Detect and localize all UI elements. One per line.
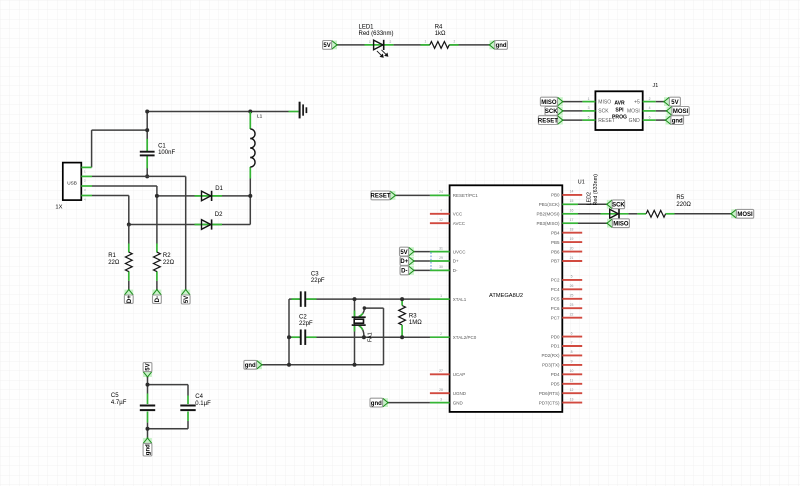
svg-text:RESET: RESET: [538, 118, 558, 124]
wire C4 bottom to node: [148, 421, 189, 429]
label C1: [158, 143, 175, 156]
svg-text:UCAP: UCAP: [453, 372, 466, 377]
IC pin PC4: [562, 288, 582, 290]
J1 pin label SCK: [598, 109, 609, 115]
svg-text:PC2: PC2: [551, 278, 560, 283]
pin lead C4 top: [187, 396, 189, 405]
svg-text:27: 27: [439, 369, 443, 373]
svg-text:PD7(CTS): PD7(CTS): [539, 400, 560, 405]
pin lead R3 top: [401, 299, 403, 305]
IC pin XTAL1: [430, 298, 450, 300]
svg-text:RESET/PC1: RESET/PC1: [453, 193, 479, 198]
IC pin label PB3(MISO): [536, 221, 560, 226]
svg-text:22Ω: 22Ω: [108, 260, 120, 266]
svg-text:UVCC: UVCC: [453, 249, 467, 254]
pin lead R5 left: [637, 213, 646, 215]
pin lead R3 bottom: [401, 325, 403, 337]
svg-text:28: 28: [439, 388, 443, 392]
svg-text:GND: GND: [629, 118, 641, 124]
pin lead L1 top: [249, 112, 251, 129]
flag D+ (USB): [124, 289, 133, 304]
svg-text:26: 26: [570, 284, 574, 288]
svg-text:R3: R3: [409, 313, 417, 319]
svg-text:25: 25: [570, 294, 574, 298]
pin lead C1 bottom: [146, 156, 148, 168]
svg-text:R5: R5: [676, 195, 684, 201]
IC pin PB6: [562, 251, 582, 253]
svg-text:9: 9: [571, 360, 573, 364]
wire D+ flag to IC: [414, 260, 430, 262]
svg-text:6: 6: [571, 331, 573, 335]
svg-text:C1: C1: [158, 143, 166, 149]
wire RESET flag to IC: [395, 194, 430, 196]
svg-text:2: 2: [454, 40, 456, 44]
IC pin PB1(SCK): [562, 203, 578, 205]
svg-text:gnd: gnd: [496, 43, 507, 49]
pin lead R2 top: [156, 244, 158, 253]
svg-text:1kΩ: 1kΩ: [435, 31, 446, 37]
svg-text:gnd: gnd: [146, 444, 152, 455]
wire right vertical to gnd row: [383, 308, 385, 365]
IC pin number 23: [570, 303, 574, 307]
flag gnd (J1): [665, 116, 684, 125]
svg-text:D+: D+: [127, 295, 133, 303]
svg-text:C4: C4: [195, 394, 203, 400]
wire node to gnd flag: [147, 429, 149, 438]
pin lead LED1: [365, 44, 394, 46]
label R4: [435, 24, 446, 37]
svg-text:2: 2: [440, 332, 442, 336]
J1 pin number 1: [588, 97, 590, 101]
svg-text:18: 18: [570, 228, 574, 232]
wire D2 row: [129, 224, 251, 226]
IC pin label PD3(TX): [542, 363, 560, 368]
wire J1 to 5V flag: [656, 101, 664, 103]
flag D- (USB): [153, 289, 162, 304]
node D2 left: [127, 223, 131, 227]
svg-text:31: 31: [439, 246, 443, 250]
IC pin label PD0: [551, 334, 560, 339]
IC pin XTAL2/PC0: [430, 336, 450, 338]
wire 5V to node: [147, 377, 149, 394]
J1 pin SCK: [582, 110, 595, 112]
svg-text:USB: USB: [67, 180, 77, 185]
svg-text:3: 3: [440, 397, 442, 401]
IC pin PC5: [562, 298, 582, 300]
svg-text:C2: C2: [299, 314, 307, 320]
resistor R3: [399, 306, 406, 326]
wire C5 bottom to node: [147, 423, 149, 429]
label C2: [299, 314, 313, 327]
svg-text:PC7: PC7: [551, 315, 560, 320]
flag RESET (J1): [538, 116, 564, 125]
svg-text:U1: U1: [578, 179, 585, 185]
svg-text:PB4: PB4: [551, 230, 560, 235]
wire J1 to MOSI flag: [656, 110, 667, 112]
IC pin label PD1: [551, 344, 560, 349]
svg-text:R2: R2: [163, 253, 171, 259]
svg-text:AVCC: AVCC: [453, 221, 466, 226]
wire SCK flag to J1: [563, 110, 583, 112]
flag gnd (LED1): [489, 41, 508, 50]
label D1: [215, 186, 223, 192]
USB pin numbers: [84, 170, 86, 202]
node crystal top bend: [363, 306, 367, 310]
IC pin label PB4: [551, 230, 560, 235]
svg-text:SPI: SPI: [615, 108, 624, 114]
svg-text:D1: D1: [215, 186, 223, 192]
svg-text:PD1: PD1: [551, 344, 560, 349]
J1 pin GND: [643, 119, 656, 121]
svg-text:19: 19: [570, 237, 574, 241]
IC pin number 31: [439, 246, 443, 250]
IC pin number 26: [570, 284, 574, 288]
pin lead C3 right: [306, 298, 316, 300]
IC pin label PC2: [551, 278, 560, 283]
IC pin label PD5: [551, 382, 560, 387]
wire RESET flag to J1: [563, 119, 583, 121]
IC pin PB4: [562, 232, 582, 234]
svg-text:14: 14: [570, 190, 574, 194]
IC pin number 27: [439, 369, 443, 373]
IC pin PB5: [562, 241, 582, 243]
IC pin label PC5: [551, 297, 560, 302]
pin lead crystal bottom curve: [359, 326, 364, 338]
wire PB2 to LED2: [578, 213, 601, 215]
label C5: [111, 393, 127, 406]
IC pin label PB6: [551, 249, 560, 254]
IC pin D-: [430, 269, 450, 271]
crystal FA1: [352, 317, 366, 325]
pin lead R5 right: [666, 213, 675, 215]
svg-text:4.7µF: 4.7µF: [111, 400, 127, 406]
J1 pin label MISO: [598, 99, 611, 105]
svg-text:1: 1: [369, 40, 371, 44]
svg-text:UGND: UGND: [453, 391, 467, 396]
label U1: [578, 179, 585, 185]
svg-text:PD4: PD4: [551, 372, 560, 377]
svg-text:2: 2: [390, 40, 392, 44]
svg-text:XTAL2/PC0: XTAL2/PC0: [453, 335, 477, 340]
pin lead R1 top: [128, 244, 130, 253]
wire crystal top curve: [359, 308, 365, 317]
flag gnd (C5): [143, 437, 152, 456]
LED LED1: [374, 40, 384, 50]
wire XTAL1 row: [289, 298, 430, 300]
wire USB pin1 up: [91, 130, 93, 167]
svg-text:PB1(SCK): PB1(SCK): [539, 202, 560, 207]
pin lead LED2: [601, 213, 629, 215]
svg-text:MOSI: MOSI: [627, 109, 640, 115]
svg-text:23: 23: [570, 303, 574, 307]
wire D+ row: [92, 195, 129, 197]
label R1: [108, 253, 120, 266]
J1 pin +5: [643, 101, 656, 103]
IC pin number 28: [439, 388, 443, 392]
label R3: [409, 313, 422, 326]
USB connector body: [63, 163, 82, 201]
wire VBUS row: [92, 175, 186, 177]
IC pin PC7: [562, 317, 582, 319]
svg-text:5V: 5V: [146, 363, 152, 370]
wire R1 top: [128, 225, 130, 244]
node gnd crystal: [353, 363, 357, 367]
svg-text:PC5: PC5: [551, 297, 560, 302]
svg-text:22: 22: [570, 313, 574, 317]
resistor R4: [430, 42, 449, 49]
IC pin AVCC: [430, 222, 450, 224]
IC pin label D+: [453, 259, 459, 264]
IC pin number 17: [570, 218, 574, 222]
svg-text:RESET: RESET: [370, 194, 390, 200]
svg-text:10: 10: [570, 369, 574, 373]
svg-text:PB7: PB7: [551, 259, 560, 264]
wire caps ground vertical: [288, 299, 290, 365]
node XTAL1 R3: [400, 297, 404, 301]
node XTAL1 crystal: [353, 297, 357, 301]
svg-text:5V: 5V: [323, 43, 330, 49]
label ATMEGA8U2: [489, 293, 523, 299]
svg-text:D+: D+: [453, 259, 459, 264]
flag gnd (IC): [370, 398, 389, 407]
IC pin number 21: [570, 256, 574, 260]
svg-text:D2: D2: [215, 212, 223, 218]
wire gnd row (crystal): [262, 364, 384, 366]
IC pin number 5: [571, 275, 573, 279]
label LED1: [359, 24, 394, 37]
svg-text:J1: J1: [653, 83, 659, 89]
svg-text:gnd: gnd: [371, 401, 382, 407]
svg-text:R4: R4: [435, 24, 443, 30]
IC pin label PD6(RTS): [539, 391, 560, 396]
wire D+ vertical: [128, 196, 130, 225]
label L1: [257, 113, 263, 119]
wire L1 to D rows: [249, 178, 251, 225]
USB pin 4: [81, 195, 92, 197]
pin lead R1 bottom: [128, 271, 130, 281]
capacitor C1: [140, 152, 155, 156]
svg-text:MISO: MISO: [598, 99, 611, 105]
svg-text:RESET: RESET: [598, 118, 615, 124]
svg-text:11: 11: [570, 379, 574, 383]
wire PB1 to SCK flag: [578, 203, 607, 205]
flag SCK (J1): [545, 107, 564, 116]
IC pin number 32: [439, 218, 443, 222]
pin lead ground left: [289, 111, 299, 113]
svg-text:1: 1: [588, 97, 590, 101]
J1 pin MISO: [582, 101, 595, 103]
diode D2: [202, 219, 212, 229]
IC pin PC2: [562, 279, 582, 281]
svg-text:8: 8: [571, 350, 573, 354]
node D1 left: [155, 194, 159, 198]
LED1 emission arrows: [377, 50, 388, 57]
wire XTAL2 row: [289, 336, 430, 338]
node gnd caps: [287, 363, 291, 367]
IC pin label UGND: [453, 391, 467, 396]
J1 pin number 6: [649, 115, 651, 119]
IC pin label RESET/PC1: [453, 193, 479, 198]
wire R2 bottom: [156, 281, 158, 290]
wire MISO flag to J1: [563, 101, 583, 103]
capacitor C5: [140, 406, 155, 411]
J1 pin label +5: [634, 99, 640, 105]
IC pin D+: [430, 260, 450, 262]
pin lead crystal top curve: [359, 308, 365, 317]
pin number R4-2: [454, 40, 456, 44]
wire PB3 to MISO flag: [578, 222, 607, 224]
resistor R5: [646, 210, 666, 217]
IC pin label D-: [453, 268, 458, 273]
IC pin PD3(TX): [562, 364, 582, 366]
IC pin label PD2(RX): [541, 353, 560, 358]
IC pin label VCC: [453, 212, 463, 217]
IC pin PD5: [562, 383, 582, 385]
flag 5V (USB): [181, 289, 190, 304]
IC pin label UVCC: [453, 249, 467, 254]
svg-text:5V: 5V: [184, 296, 190, 303]
IC pin number 8: [571, 350, 573, 354]
svg-text:C3: C3: [311, 271, 319, 277]
svg-text:PB5: PB5: [551, 240, 560, 245]
svg-text:1X: 1X: [55, 205, 62, 211]
svg-text:22Ω: 22Ω: [163, 260, 175, 266]
flag MISO (J1): [540, 97, 563, 106]
IC pin PD0: [562, 336, 582, 338]
flag MOSI (IC): [730, 209, 754, 218]
J1 pin label MOSI: [627, 109, 640, 115]
label J1: [653, 83, 659, 89]
IC pin number 10: [570, 369, 574, 373]
resistor R1: [125, 252, 132, 272]
IC pin PB0: [562, 194, 582, 196]
flag 5V (J1): [663, 97, 680, 106]
flag gnd (crystal): [244, 360, 263, 369]
IC pin number 7: [571, 341, 573, 345]
flag SCK: [606, 200, 625, 209]
svg-text:6: 6: [649, 115, 651, 119]
IC pin number 14: [570, 190, 574, 194]
ratsnest (blue dashed): [430, 252, 432, 269]
IC pin number 20: [570, 246, 574, 250]
wire top rail: [147, 111, 288, 113]
svg-text:MOSI: MOSI: [673, 109, 689, 115]
IC pin PB3(MISO): [562, 222, 578, 224]
svg-text:SCK: SCK: [598, 109, 609, 115]
svg-text:100nF: 100nF: [158, 150, 175, 156]
IC pin number 25: [570, 294, 574, 298]
label C4: [195, 394, 211, 407]
svg-text:R1: R1: [108, 253, 116, 259]
label C3: [311, 271, 325, 284]
svg-text:4: 4: [440, 209, 442, 213]
IC pin label XTAL1: [453, 297, 467, 302]
svg-text:29: 29: [439, 256, 443, 260]
svg-text:1MΩ: 1MΩ: [409, 320, 422, 326]
IC pin number 13: [570, 397, 574, 401]
J1 pin number 2: [649, 97, 651, 101]
svg-text:PB2(MOSI): PB2(MOSI): [536, 212, 560, 217]
svg-text:PD0: PD0: [551, 334, 560, 339]
node C1 bottom: [145, 174, 149, 178]
svg-text:PC6: PC6: [551, 306, 560, 311]
IC pin PD2(RX): [562, 354, 582, 356]
pin lead R2 bottom: [156, 271, 158, 281]
svg-text:PD6(RTS): PD6(RTS): [539, 391, 560, 396]
IC pin number 4: [440, 209, 442, 213]
svg-text:5V: 5V: [671, 100, 678, 106]
svg-text:24: 24: [439, 190, 443, 194]
svg-text:SCK: SCK: [545, 109, 558, 115]
wire D1 row: [157, 195, 250, 197]
svg-text:Red (633nm): Red (633nm): [359, 31, 394, 37]
IC pin GND: [430, 402, 450, 404]
IC pin number 30: [439, 265, 443, 269]
label FA1: [368, 332, 374, 342]
wire LED2 to R5: [628, 213, 637, 215]
svg-text:PB3(MISO): PB3(MISO): [536, 221, 560, 226]
pin lead C5 bottom: [147, 412, 149, 423]
J1 pin number 3: [588, 106, 590, 110]
pin lead C2 right: [306, 336, 316, 338]
svg-text:FA1: FA1: [368, 332, 374, 342]
svg-text:SCK: SCK: [612, 203, 625, 209]
capacitor C3: [301, 291, 306, 307]
svg-text:PB6: PB6: [551, 249, 560, 254]
svg-text:5: 5: [588, 115, 590, 119]
node above C1: [145, 110, 149, 114]
svg-text:13: 13: [570, 397, 574, 401]
IC pin label PD7(CTS): [539, 400, 560, 405]
svg-text:MOSI: MOSI: [737, 212, 753, 218]
pin lead R4 right: [449, 44, 458, 46]
pin number LED1-1: [369, 40, 371, 44]
label AVR SPI PROG: [612, 101, 627, 121]
diode D1: [202, 191, 212, 201]
svg-text:ATMEGA8U2: ATMEGA8U2: [489, 293, 523, 299]
LED LED2: [610, 209, 619, 219]
IC pin PC6: [562, 307, 582, 309]
J1 pin number 5: [588, 115, 590, 119]
wire crystal vertical: [354, 299, 356, 365]
node XTAL2 crystal: [362, 335, 366, 339]
svg-text:3: 3: [588, 106, 590, 110]
svg-text:Red (633nm): Red (633nm): [593, 174, 599, 206]
wire R4 to gnd: [449, 44, 489, 46]
node C1 left: [145, 128, 149, 132]
pin lead crystal bottom: [354, 325, 356, 331]
label USB: [67, 180, 77, 185]
pin lead C2 left: [292, 336, 300, 338]
flag 5V (LED1): [323, 41, 338, 50]
pin lead C1 top: [146, 139, 148, 151]
IC pin PB2(MOSI): [562, 213, 578, 215]
IC pin VCC: [430, 213, 450, 215]
svg-text:1: 1: [440, 294, 442, 298]
svg-text:PD3(TX): PD3(TX): [542, 363, 560, 368]
svg-text:D-: D-: [453, 268, 458, 273]
svg-text:15: 15: [570, 199, 574, 203]
IC pin UGND: [430, 392, 450, 394]
pin lead D2: [195, 224, 223, 226]
IC pin UVCC: [430, 251, 450, 253]
IC pin number 1: [440, 294, 442, 298]
wire pin1 to C1 node: [92, 129, 148, 131]
svg-text:30: 30: [439, 265, 443, 269]
IC pin PD1: [562, 345, 582, 347]
IC pin UCAP: [430, 373, 450, 375]
svg-text:22pF: 22pF: [311, 278, 325, 284]
